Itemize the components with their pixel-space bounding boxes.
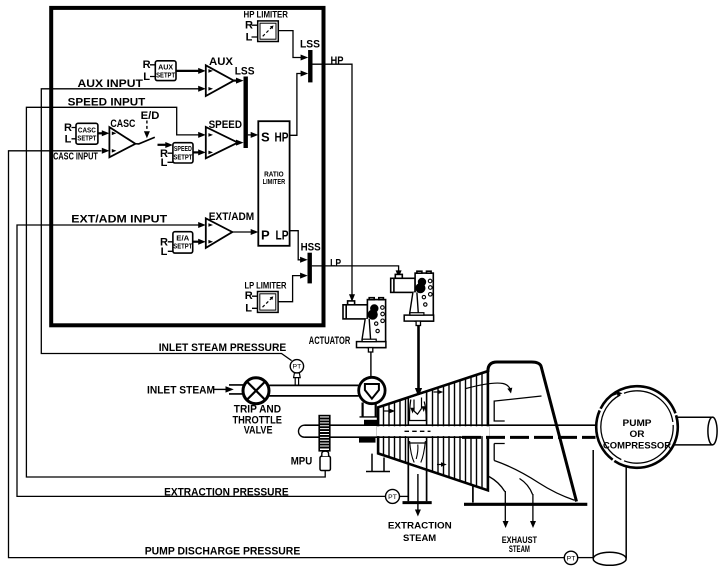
- svg-text:L: L: [245, 303, 252, 315]
- svg-text:MPU: MPU: [291, 455, 313, 467]
- svg-text:HP LIMITER: HP LIMITER: [244, 9, 289, 19]
- svg-text:CASC: CASC: [110, 118, 135, 130]
- svg-text:R: R: [245, 20, 253, 32]
- svg-text:PT: PT: [293, 364, 302, 371]
- svg-text:TRIP AND: TRIP AND: [234, 403, 281, 415]
- svg-text:AUX: AUX: [158, 64, 173, 71]
- svg-text:HP: HP: [275, 130, 289, 145]
- svg-text:LSS: LSS: [235, 65, 255, 77]
- svg-text:L: L: [246, 32, 253, 44]
- svg-text:L: L: [161, 157, 168, 169]
- svg-text:R: R: [245, 290, 253, 302]
- svg-text:ACTUATOR: ACTUATOR: [309, 335, 351, 347]
- svg-text:P: P: [261, 228, 270, 243]
- svg-text:CASC INPUT: CASC INPUT: [53, 151, 98, 162]
- svg-text:AUX: AUX: [209, 56, 234, 68]
- svg-text:LP LIMITER: LP LIMITER: [245, 281, 287, 291]
- svg-text:E/D: E/D: [141, 110, 160, 122]
- svg-text:R: R: [143, 59, 151, 71]
- svg-text:PUMP: PUMP: [623, 418, 653, 429]
- svg-text:PUMP DISCHARGE PRESSURE: PUMP DISCHARGE PRESSURE: [145, 545, 301, 557]
- svg-text:STEAM: STEAM: [509, 544, 530, 555]
- svg-text:LP: LP: [276, 228, 289, 243]
- svg-text:STEAM: STEAM: [403, 533, 436, 544]
- svg-text:LSS: LSS: [300, 39, 320, 51]
- svg-text:R: R: [64, 122, 72, 134]
- svg-text:SETPT: SETPT: [77, 136, 97, 143]
- svg-text:COMPRESSOR: COMPRESSOR: [603, 440, 671, 451]
- svg-text:L: L: [143, 71, 150, 83]
- svg-text:AUX INPUT: AUX INPUT: [78, 78, 144, 90]
- svg-text:EXT/ADM INPUT: EXT/ADM INPUT: [71, 213, 167, 225]
- svg-text:SETPT: SETPT: [156, 73, 176, 80]
- svg-text:L: L: [161, 246, 168, 258]
- svg-text:PT: PT: [567, 555, 576, 562]
- svg-text:SPEED: SPEED: [174, 146, 192, 153]
- svg-text:PT: PT: [388, 494, 397, 501]
- svg-text:VALVE: VALVE: [244, 425, 273, 437]
- svg-text:SETPT: SETPT: [173, 244, 193, 251]
- svg-text:EXTRACTION: EXTRACTION: [388, 521, 452, 532]
- svg-text:EXTRACTION PRESSURE: EXTRACTION PRESSURE: [164, 486, 289, 498]
- svg-text:E/A: E/A: [176, 235, 189, 242]
- svg-text:HSS: HSS: [301, 241, 321, 253]
- svg-text:EXT/ADM: EXT/ADM: [209, 211, 254, 223]
- svg-text:CASC: CASC: [78, 127, 96, 134]
- svg-text:SPEED INPUT: SPEED INPUT: [68, 96, 146, 108]
- svg-text:LIMITER: LIMITER: [263, 179, 286, 186]
- svg-text:HP: HP: [331, 55, 344, 67]
- svg-text:S: S: [261, 130, 270, 145]
- svg-text:RATIO: RATIO: [264, 172, 284, 179]
- svg-text:L: L: [65, 134, 72, 146]
- svg-text:INLET STEAM: INLET STEAM: [147, 385, 215, 397]
- svg-text:OR: OR: [630, 429, 645, 440]
- svg-text:SPEED: SPEED: [209, 119, 242, 131]
- svg-text:SETPT: SETPT: [173, 155, 193, 162]
- svg-text:LP: LP: [330, 257, 341, 269]
- svg-text:INLET STEAM PRESSURE: INLET STEAM PRESSURE: [159, 342, 287, 354]
